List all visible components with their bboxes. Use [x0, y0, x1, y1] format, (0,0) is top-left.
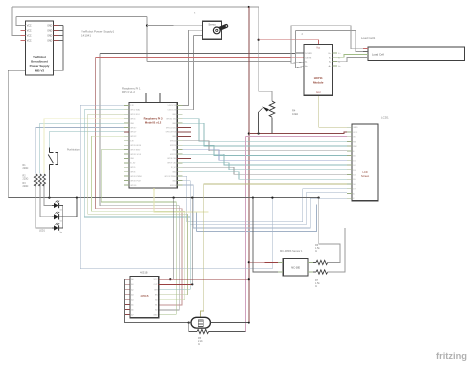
- wire: [49, 132, 124, 148]
- wire: [249, 132, 347, 134]
- wire: [189, 29, 203, 31]
- svg-text:D6: D6: [353, 184, 355, 186]
- pin RPi right 1: [177, 104, 182, 106]
- pin label IC right 7: [155, 309, 157, 311]
- wire: [147, 61, 291, 63]
- pin RPi left 15: [124, 166, 129, 168]
- pin IC left 3: [124, 288, 130, 290]
- wire: [183, 36, 194, 110]
- pin label RPi right 12: [170, 154, 176, 156]
- pin label LCD 6: [353, 151, 355, 153]
- pin label HX711 left DO/RX: [305, 53, 312, 55]
- pin LCD 5: [347, 145, 352, 147]
- sensor MC-38DS body: [283, 259, 308, 277]
- pin label HX711 left A+: [305, 65, 308, 68]
- svg-text:GND: GND: [153, 314, 158, 316]
- wire: [63, 198, 77, 217]
- label Load Cell1: [361, 36, 376, 40]
- pin label HX711 right A-: [329, 61, 331, 64]
- svg-text:GPIO17: GPIO17: [130, 127, 136, 129]
- pin label IC right 2: [154, 284, 159, 286]
- pin RPi left 12: [124, 153, 129, 155]
- pin RPi left 16: [124, 171, 129, 173]
- wire: [40, 184, 52, 217]
- pin RPi right 13: [177, 157, 191, 159]
- pin label HX711 ext E+: [338, 53, 341, 55]
- node junction: [48, 197, 50, 199]
- wire: [84, 110, 190, 290]
- svg-text:5m: 5m: [60, 221, 63, 223]
- pin label HX711 right E-: [329, 57, 331, 59]
- pin RPi right 19: [177, 184, 182, 186]
- pin label RPi right 9: [170, 141, 176, 143]
- pin MC38 L1: [278, 261, 283, 263]
- pin label HX711 left A-: [305, 61, 307, 64]
- pin RPi left 17: [124, 175, 129, 177]
- wire: [36, 184, 52, 228]
- wire: [189, 322, 191, 324]
- pin RPi left 10: [124, 144, 129, 146]
- label R4 10k: [292, 109, 298, 117]
- svg-text:GPIO12 PWM0: GPIO12 PWM0: [164, 176, 176, 178]
- svg-text:GPIO15 RXD: GPIO15 RXD: [166, 127, 177, 129]
- label RPi inside: [144, 117, 163, 125]
- pin LCD 16: [347, 197, 352, 199]
- wire: [59, 30, 64, 32]
- wire: [197, 205, 317, 232]
- svg-text:A7: A7: [131, 313, 133, 316]
- wire: [96, 56, 305, 58]
- svg-text:E-: E-: [329, 57, 331, 59]
- pin label RPi left 15: [130, 167, 135, 169]
- svg-text:GND: GND: [47, 36, 52, 38]
- wire: [44, 184, 52, 206]
- pin label RPi right 1: [167, 105, 176, 107]
- label Pushbutton: [67, 149, 80, 152]
- wire: [8, 26, 63, 198]
- pin label LCD 14: [353, 189, 355, 191]
- node junction: [258, 39, 260, 41]
- wire: [12, 6, 249, 8]
- svg-text:GPIO26: GPIO26: [130, 185, 136, 187]
- servo M1 body: [203, 21, 222, 39]
- label servo part no: [194, 12, 196, 15]
- pin load cell 4: [363, 56, 368, 58]
- wire: [12, 7, 21, 36]
- svg-text:R4: R4: [292, 109, 296, 113]
- resistor R2: [38, 174, 41, 186]
- svg-text:VCC: VCC: [27, 26, 32, 28]
- label MC-38D inside: [291, 267, 300, 270]
- node junction: [248, 261, 250, 263]
- wire: [183, 141, 348, 151]
- pin LCD 11: [347, 174, 352, 176]
- pin label VCC4: [27, 41, 32, 43]
- node junction: [248, 278, 250, 280]
- resistor R3: [43, 174, 46, 186]
- node junction: [169, 278, 171, 280]
- pin IC left 2: [124, 283, 130, 285]
- wire: [183, 181, 348, 225]
- svg-text:10kΩ: 10kΩ: [292, 112, 298, 116]
- svg-text:Pushbutton: Pushbutton: [67, 149, 80, 152]
- svg-text:GPIO10 MOSI: GPIO10 MOSI: [130, 145, 141, 147]
- svg-text:LED1: LED1: [39, 230, 46, 233]
- svg-text:4051B: 4051B: [140, 271, 148, 275]
- label R7: [315, 279, 320, 288]
- pin label IC right 5: [155, 299, 157, 301]
- pin RPi right 6: [177, 127, 191, 129]
- pin load cell 2: [363, 51, 368, 53]
- pin label RPi left 8: [130, 136, 136, 138]
- wire: [183, 163, 348, 170]
- pin HX711 right A-: [332, 61, 337, 63]
- resistor R1: [34, 174, 37, 186]
- pin label IC left 4: [131, 293, 133, 296]
- label R5: [198, 337, 203, 346]
- pin RPi left 3: [124, 113, 129, 115]
- wire: [59, 25, 64, 27]
- label R6: [315, 244, 320, 253]
- pin label LCD 12: [353, 179, 355, 181]
- pin label HX711 ext E-: [338, 57, 340, 59]
- pin label RPi right 4: [166, 118, 177, 120]
- svg-text:GPIO22: GPIO22: [130, 136, 136, 138]
- pin label RPi right 17: [164, 176, 176, 178]
- label piezo 1: [200, 314, 202, 316]
- svg-text:A2: A2: [131, 288, 133, 291]
- wire: [16, 16, 147, 18]
- svg-text:A6: A6: [131, 308, 133, 311]
- wire: [249, 261, 278, 263]
- node junction: [271, 197, 273, 199]
- svg-text:ID_SC: ID_SC: [171, 167, 177, 169]
- pin label RPi right 2: [167, 110, 176, 112]
- node junction: [248, 6, 250, 8]
- label R3 220: [23, 182, 29, 188]
- wire: [8, 197, 318, 199]
- svg-text:D1: D1: [353, 160, 355, 162]
- label R2 220: [23, 175, 29, 181]
- svg-text:A-: A-: [305, 61, 307, 64]
- wire: [92, 136, 185, 299]
- svg-text:VCC: VCC: [27, 31, 32, 33]
- pin label RPi left 19: [130, 185, 136, 187]
- pin label HX711 right A+: [329, 65, 332, 68]
- svg-text:MC-38D: MC-38D: [291, 267, 300, 270]
- label IC inside: [140, 294, 148, 298]
- wire: [245, 137, 247, 332]
- wire: [183, 150, 348, 161]
- pin label LCD 4: [353, 141, 356, 143]
- pin RPi right 12: [177, 153, 182, 155]
- wire: [296, 31, 305, 68]
- pin label LCD 1: [353, 127, 358, 129]
- pin VCC2: [21, 30, 26, 32]
- wire: [210, 322, 248, 324]
- LCD1 body: [352, 124, 378, 201]
- pin RPi bottom: [153, 188, 155, 191]
- pin IC left 6: [124, 303, 130, 305]
- svg-text:GPIO8 CE0: GPIO8 CE0: [167, 158, 176, 160]
- pin label RPi right 14: [167, 163, 176, 165]
- pin label RPi right 16: [172, 172, 177, 174]
- pin label RPi right 6: [166, 127, 177, 129]
- svg-text:DO/RX: DO/RX: [305, 53, 312, 55]
- svg-text:GPIO24: GPIO24: [170, 145, 176, 147]
- wire: [124, 279, 188, 322]
- pin LCD 14: [347, 188, 352, 190]
- pin label IC left 7: [131, 308, 133, 311]
- pin RPi right 2: [177, 109, 182, 111]
- svg-text:GPIO9 MISO: GPIO9 MISO: [130, 149, 141, 151]
- pin RPi right 11: [177, 149, 182, 151]
- servo rotor: [213, 25, 227, 34]
- wire: [159, 283, 193, 285]
- pin label RPi left 18: [130, 180, 141, 182]
- resistor R6: [313, 260, 328, 264]
- label LED1: [39, 230, 46, 233]
- pin LCD 9: [347, 164, 352, 166]
- svg-text:220Ω: 220Ω: [23, 178, 29, 181]
- svg-text:A-: A-: [338, 61, 340, 64]
- svg-text:LCD: LCD: [362, 170, 367, 174]
- svg-text:A5: A5: [131, 303, 133, 306]
- pin label LCD 5: [353, 146, 356, 148]
- pin label RPi left 16: [130, 172, 135, 174]
- pin label IC left 5: [131, 298, 133, 301]
- pin label HX711 right E+: [329, 53, 332, 55]
- wire: [80, 105, 272, 268]
- pin GND1: [54, 25, 59, 27]
- label 4051B top: [140, 271, 148, 275]
- pin MC38 R1: [308, 261, 313, 263]
- svg-text:GPIO25: GPIO25: [170, 154, 176, 156]
- svg-text:ID_SD: ID_SD: [130, 163, 136, 165]
- pin GND4: [54, 40, 59, 42]
- resistor R5: [197, 329, 209, 333]
- pin label LCD 7: [353, 156, 355, 158]
- pin IC left 5: [124, 298, 130, 300]
- pin IC left 8: [124, 313, 130, 315]
- pin label GND3: [47, 36, 52, 38]
- wire: [328, 228, 345, 272]
- svg-text:GPIO13 PWM1: GPIO13 PWM1: [130, 176, 142, 178]
- label HX711 Module: [313, 76, 324, 85]
- pin IC left 7: [124, 308, 130, 310]
- svg-text:Ω: Ω: [315, 285, 317, 288]
- svg-text:A-: A-: [329, 61, 331, 64]
- svg-text:A3: A3: [131, 293, 133, 296]
- pin label RPi right 19: [170, 185, 176, 187]
- wire: [36, 128, 124, 174]
- pin RPi right 8: [177, 135, 191, 137]
- svg-text:Screen: Screen: [361, 174, 370, 178]
- wire: [48, 170, 50, 198]
- wire: [147, 24, 203, 26]
- pin LCD 7: [347, 155, 352, 157]
- svg-text:220Ω: 220Ω: [23, 185, 29, 188]
- wire: [96, 58, 182, 305]
- wire: [183, 119, 348, 142]
- wire: [259, 40, 319, 45]
- pin LCD 12: [347, 178, 352, 180]
- svg-text:E-: E-: [338, 57, 340, 59]
- pin label GND1: [47, 26, 52, 28]
- pin LCD 10: [347, 169, 352, 171]
- pin RPi left 5: [124, 122, 129, 124]
- pin LCD 3: [347, 136, 352, 138]
- svg-text:B0: B0: [155, 299, 157, 301]
- pin label RPi left 9: [130, 141, 134, 143]
- label R1 220: [23, 164, 29, 170]
- pin label RPi left 17: [130, 176, 142, 178]
- wire: [319, 198, 340, 263]
- label Load Cell: [372, 53, 384, 57]
- wire: [183, 154, 348, 165]
- label YwRobot Power Supply1 141041: [81, 30, 115, 38]
- pin RPi top 1: [145, 93, 147, 103]
- svg-text:A1: A1: [131, 283, 133, 286]
- pin label RPi right 5: [172, 123, 177, 125]
- wire: [183, 30, 189, 105]
- pin HX711 right E+: [332, 52, 337, 54]
- pin label IC right 6: [155, 304, 157, 306]
- svg-text:B2: B2: [155, 309, 157, 311]
- pin label RPi right 13: [167, 158, 176, 160]
- label HX711 Vcc: [316, 48, 321, 50]
- svg-text:D7: D7: [353, 189, 355, 191]
- wire: [319, 95, 347, 127]
- pin label RPi right 3: [172, 114, 177, 116]
- svg-text:4051B: 4051B: [140, 294, 148, 298]
- label PS1 text: [30, 55, 50, 73]
- svg-text:GPIO16: GPIO16: [170, 185, 176, 187]
- pin label RPi right 11: [172, 149, 177, 151]
- node junction: [248, 322, 250, 324]
- pin label VCC2: [27, 31, 32, 33]
- potentiometer R4: [259, 101, 275, 134]
- LED LED3: [52, 223, 63, 234]
- label Servo: [208, 22, 216, 26]
- label HX711 Gnd: [316, 92, 321, 94]
- pin LCD 15: [347, 192, 352, 194]
- node junction: [252, 197, 254, 199]
- svg-text:RPi 3 v1.2: RPi 3 v1.2: [122, 90, 135, 94]
- svg-text:Ω: Ω: [198, 343, 200, 346]
- label LCD1: [381, 116, 389, 120]
- wire: [249, 7, 272, 101]
- pin GND2: [54, 30, 59, 32]
- svg-text:Raspberry Pi 3: Raspberry Pi 3: [144, 117, 163, 121]
- wire: [88, 114, 188, 294]
- pin RPi left 13: [124, 157, 129, 159]
- svg-text:220Ω: 220Ω: [23, 167, 29, 170]
- svg-text:GPIO19 PCM: GPIO19 PCM: [130, 180, 141, 182]
- pin RPi left 1: [124, 104, 129, 106]
- wire: [291, 26, 363, 49]
- wire: [337, 55, 363, 58]
- svg-text:D2: D2: [353, 165, 355, 167]
- wire: [296, 31, 364, 52]
- svg-text:GPIO11 SCLK: GPIO11 SCLK: [130, 154, 142, 156]
- piezo buzzer P1: [191, 317, 210, 328]
- pin label LCD 11: [353, 175, 355, 177]
- node junction: [146, 24, 148, 26]
- wire: [183, 167, 348, 174]
- pin RPi left 2: [124, 109, 129, 111]
- pin RPi right 18: [177, 180, 182, 182]
- wire: [62, 206, 64, 229]
- svg-text:D5: D5: [353, 179, 355, 181]
- power supply PS1 YwRobot MB-V2: [26, 21, 54, 75]
- LED LED1: [52, 201, 63, 212]
- pin label HX711 left CK/TX: [305, 57, 312, 59]
- pin HX711 right E-: [332, 56, 337, 58]
- wire: [196, 212, 198, 232]
- svg-text:CK/TX: CK/TX: [305, 57, 312, 59]
- pin load cell 3: [363, 54, 368, 56]
- svg-text:MC-38DS Sensor 1: MC-38DS Sensor 1: [280, 249, 303, 253]
- svg-text:B1: B1: [155, 304, 157, 306]
- HX711 module U2: [304, 45, 332, 96]
- svg-text:Model B v1.2: Model B v1.2: [145, 121, 162, 125]
- pin label GND4: [47, 41, 52, 43]
- wire: [183, 185, 348, 228]
- wire: [44, 119, 124, 174]
- wire: [146, 17, 148, 62]
- pin label RPi left 5: [130, 123, 135, 125]
- svg-text:A0: A0: [131, 278, 133, 281]
- svg-text:VCC: VCC: [353, 132, 358, 134]
- wire: [191, 198, 193, 285]
- svg-text:Power Supply: Power Supply: [30, 64, 50, 68]
- pin label RPi left 12: [130, 154, 142, 156]
- wire: [159, 278, 249, 280]
- pin label RPi left 3: [130, 114, 140, 116]
- resistor R7: [313, 270, 328, 274]
- pin RPi left 8: [124, 135, 129, 137]
- pin label IC left 3: [131, 288, 133, 291]
- wire: [183, 145, 348, 155]
- wire: [173, 198, 175, 280]
- wire: [183, 172, 348, 179]
- svg-text:5.0V DC IN: 5.0V DC IN: [167, 105, 176, 107]
- node junction: [191, 197, 193, 199]
- svg-text:VCC: VCC: [27, 41, 32, 43]
- pin RPi left 7: [124, 131, 129, 133]
- pin IC left 1: [124, 278, 130, 280]
- pin label LCD 9: [353, 165, 355, 167]
- svg-text:LCD1: LCD1: [381, 116, 389, 120]
- pin label RPi right 15: [171, 167, 177, 169]
- pin label IC left 8: [131, 313, 133, 316]
- pin label RPi left 2: [130, 109, 140, 112]
- wire: [337, 57, 363, 61]
- pin MC38 R2: [308, 271, 313, 273]
- svg-text:A4: A4: [131, 298, 133, 301]
- pin MC38 L2: [278, 271, 283, 273]
- pin label HX711 ext A-: [338, 61, 340, 64]
- pin RPi left 6: [124, 127, 129, 129]
- node junction: [173, 197, 175, 199]
- svg-text:Breadboard: Breadboard: [31, 60, 48, 64]
- wire: [291, 26, 304, 64]
- pin VCC1: [21, 25, 26, 27]
- svg-text:GPIO14 TXD: GPIO14 TXD: [166, 118, 177, 120]
- svg-text:VCC: VCC: [154, 279, 159, 281]
- pin RPi right 15: [177, 166, 182, 168]
